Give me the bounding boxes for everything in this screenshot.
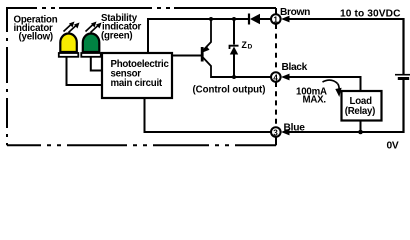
transistor Q1 (PNP output) (202, 19, 211, 78)
svg-text:3: 3 (273, 128, 278, 137)
wire main circuit to Vcc rail (147, 19, 149, 53)
svg-text:main circuit: main circuit (111, 78, 163, 89)
svg-text:0V: 0V (387, 140, 399, 151)
junction dot emitter node (209, 17, 213, 21)
sensor enclosure border (dash-dot chain line) (7, 7, 276, 145)
svg-text:(Relay): (Relay) (345, 106, 375, 117)
wire yellow LED to main circuit (67, 57, 103, 85)
svg-text:Black: Black (282, 62, 308, 73)
supply rail right side (402, 18, 404, 74)
wire 0V (287, 131, 404, 133)
svg-text:(yellow): (yellow) (19, 32, 53, 43)
terminal 4 (black) (271, 72, 281, 82)
wire main circuit to terminal 3 (0V) (145, 98, 273, 132)
current direction curved arrow (323, 80, 342, 97)
wire black to load (287, 77, 361, 91)
operation indicator label (14, 15, 58, 43)
load RL (relay) (342, 91, 382, 121)
svg-text:(green): (green) (101, 31, 132, 42)
zener diode ZD (230, 19, 239, 77)
arrow into terminal 4 (281, 74, 290, 81)
svg-text:Blue: Blue (284, 122, 306, 133)
arrow into terminal 3 (281, 129, 290, 136)
svg-text:Brown: Brown (280, 7, 310, 18)
dashed boundary through terminals (right edge of enclosure) (275, 8, 277, 145)
svg-text:4: 4 (273, 73, 278, 82)
light arrows of green LED (86, 22, 102, 33)
junction dot load/0V node (358, 130, 363, 135)
stability indicator label (101, 13, 142, 42)
photoelectric sensor main circuit box U1 (102, 53, 172, 98)
terminal 1 (brown) (271, 14, 281, 24)
junction dot zener top node (232, 17, 236, 21)
svg-text:10 to 30VDC: 10 to 30VDC (340, 8, 401, 19)
junction dot zener bottom node (232, 75, 236, 79)
arrow into terminal 1 (281, 16, 290, 23)
collector wire to terminal 4 (211, 76, 272, 78)
svg-text:1: 1 (273, 15, 278, 24)
svg-text:(Control output): (Control output) (193, 85, 266, 96)
svg-text:D: D (248, 44, 253, 51)
wire green LED to main circuit (91, 57, 102, 71)
battery BT1 (395, 75, 410, 79)
LED operation indicator (yellow) (59, 34, 79, 57)
svg-text:MAX.: MAX. (303, 95, 327, 106)
wire brown (287, 18, 404, 20)
wire load to 0V rail (360, 121, 362, 134)
wire base (main circuit to Q1) (172, 55, 201, 57)
diode D1 reverse-polarity protection (249, 14, 260, 25)
light arrows of yellow LED (64, 22, 80, 33)
Vcc rail wire (top) (147, 18, 249, 20)
terminal 3 (blue) (271, 127, 281, 137)
LED stability indicator (green) (81, 34, 101, 57)
